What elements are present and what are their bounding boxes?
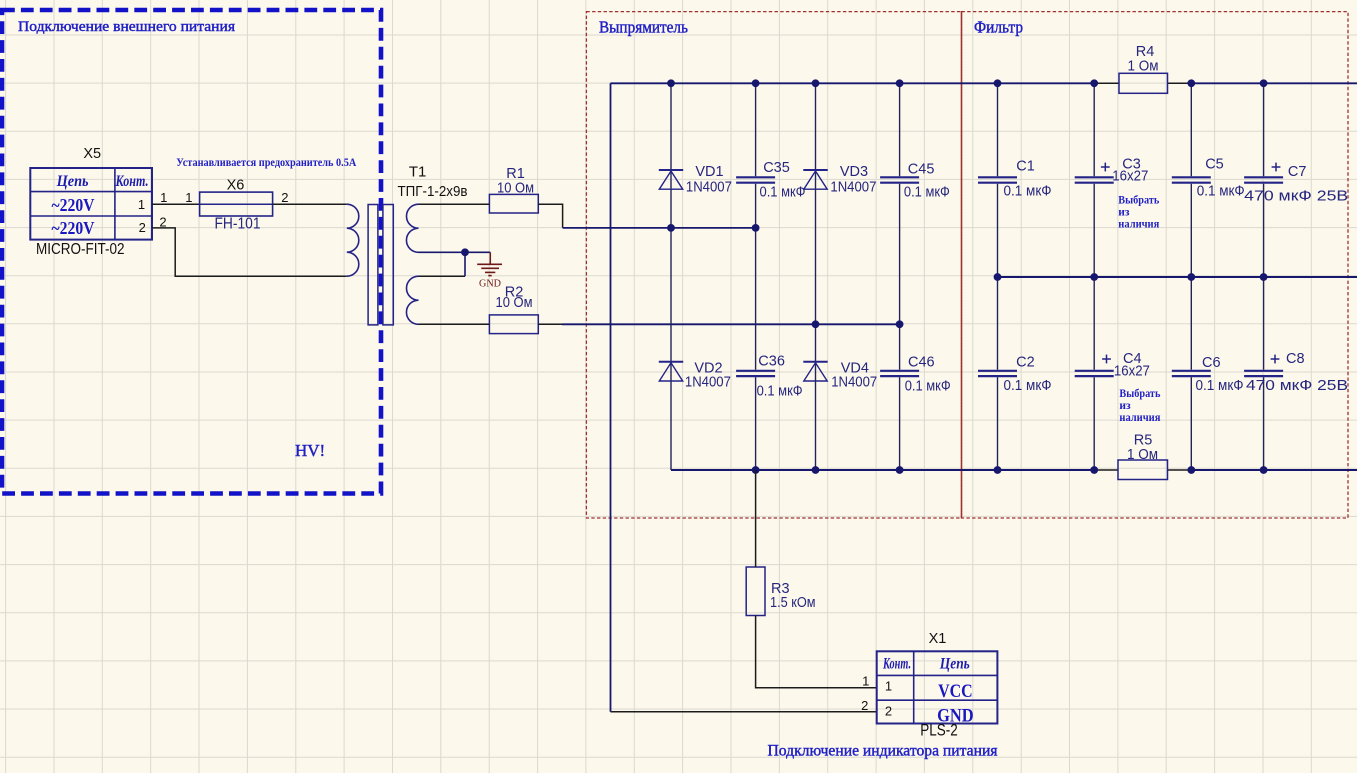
junction xyxy=(667,79,675,87)
wire top bus xyxy=(611,82,1357,84)
wire C7/C8 vertical xyxy=(1263,83,1265,470)
capacitor C8 xyxy=(1244,351,1348,394)
svg-text:из: из xyxy=(1119,400,1131,412)
svg-text:из: из xyxy=(1118,207,1130,219)
svg-text:X1: X1 xyxy=(929,631,947,647)
rectifier region box (Выпрямитель) xyxy=(586,12,961,518)
wire bottom bus to R3 xyxy=(755,470,757,567)
wire VD1/VD2 vertical xyxy=(670,83,672,470)
svg-text:1: 1 xyxy=(160,190,167,205)
capacitor C4 xyxy=(1075,351,1150,380)
svg-text:2: 2 xyxy=(861,698,868,713)
wire T1 to R1 xyxy=(419,203,490,205)
svg-text:16x27: 16x27 xyxy=(1114,364,1150,380)
junction xyxy=(1090,273,1098,281)
svg-text:C1: C1 xyxy=(1016,159,1035,175)
note for C4 xyxy=(1119,388,1160,424)
svg-text:0.1 мкФ: 0.1 мкФ xyxy=(904,185,950,201)
ground symbol GND xyxy=(477,252,502,275)
svg-text:1N4007: 1N4007 xyxy=(831,375,877,391)
junction xyxy=(812,466,820,474)
svg-text:Конт.: Конт. xyxy=(882,656,911,673)
junction xyxy=(1187,273,1195,281)
wire GND net vertical xyxy=(610,83,612,712)
svg-text:2: 2 xyxy=(885,704,892,719)
junction xyxy=(1260,466,1268,474)
diode VD1 xyxy=(659,164,732,196)
svg-text:470 мкФ 25В: 470 мкФ 25В xyxy=(1246,378,1348,394)
T1 secondary winding lower xyxy=(406,276,418,324)
svg-text:0.1 мкФ: 0.1 мкФ xyxy=(1196,378,1244,394)
diode VD4 xyxy=(803,361,877,391)
junction xyxy=(994,273,1002,281)
T1 secondary winding upper xyxy=(406,204,418,252)
svg-text:Цепь: Цепь xyxy=(56,173,89,190)
svg-text:наличия: наличия xyxy=(1119,412,1160,424)
svg-text:Выбрать: Выбрать xyxy=(1118,195,1159,207)
junction xyxy=(1090,79,1098,87)
svg-text:1: 1 xyxy=(185,190,192,205)
svg-text:470 мкФ 25В: 470 мкФ 25В xyxy=(1244,189,1348,205)
HV region box (Подключение внешнего питания) xyxy=(2,10,381,494)
svg-text:1: 1 xyxy=(138,197,145,212)
svg-text:Подключение внешнего питания: Подключение внешнего питания xyxy=(18,19,235,35)
wire C3/C4 vertical xyxy=(1093,83,1095,470)
capacitor C5 xyxy=(1172,157,1245,200)
T1 primary winding xyxy=(347,204,359,276)
svg-text:C5: C5 xyxy=(1205,157,1224,173)
junction xyxy=(896,320,904,328)
capacitor C6 xyxy=(1172,355,1244,394)
junction xyxy=(896,466,904,474)
svg-text:наличия: наличия xyxy=(1118,219,1159,231)
wire C5/C6 vertical xyxy=(1190,83,1192,470)
junction xyxy=(1260,79,1268,87)
capacitor C1 xyxy=(978,159,1052,200)
junction center tap xyxy=(461,248,469,256)
resistor R2 xyxy=(489,285,538,334)
wire GND net to X1 pin2 xyxy=(611,711,877,713)
junction xyxy=(752,79,760,87)
resistor R1 xyxy=(489,166,538,213)
svg-text:FH-101: FH-101 xyxy=(215,216,261,233)
svg-text:HV!: HV! xyxy=(295,441,325,460)
svg-text:0.1 мкФ: 0.1 мкФ xyxy=(757,384,803,400)
capacitor C2 xyxy=(978,355,1052,395)
svg-text:PLS-2: PLS-2 xyxy=(920,722,958,740)
svg-text:VD3: VD3 xyxy=(840,164,868,180)
junction xyxy=(812,320,820,328)
svg-text:0.1 мкФ: 0.1 мкФ xyxy=(905,379,951,395)
svg-text:VCC: VCC xyxy=(938,682,973,702)
capacitor C36 xyxy=(736,354,803,400)
svg-text:0.1 мкФ: 0.1 мкФ xyxy=(1197,184,1245,200)
junction xyxy=(1260,273,1268,281)
svg-text:C36: C36 xyxy=(758,354,785,370)
svg-text:C8: C8 xyxy=(1286,351,1305,367)
diode VD3 xyxy=(803,164,876,196)
connector X5 xyxy=(30,146,152,258)
fuse holder X6 xyxy=(200,178,289,233)
svg-text:Цепь: Цепь xyxy=(939,656,970,673)
svg-text:Фильтр: Фильтр xyxy=(974,18,1023,37)
svg-text:1 Ом: 1 Ом xyxy=(1128,59,1159,75)
wire X5 pin1 to fuse X6 xyxy=(152,190,200,205)
diode VD2 xyxy=(659,361,731,391)
junction xyxy=(994,466,1002,474)
wire secondary center tap xyxy=(419,252,491,276)
svg-text:GND: GND xyxy=(479,278,501,290)
wire C1/C2 vertical xyxy=(997,83,999,470)
junction xyxy=(667,224,675,232)
svg-text:0.1 мкФ: 0.1 мкФ xyxy=(1004,184,1052,200)
svg-text:1N4007: 1N4007 xyxy=(830,180,876,196)
junction xyxy=(752,466,760,474)
capacitor C46 xyxy=(880,355,951,395)
T1 core xyxy=(368,205,378,325)
wire R4 stubs xyxy=(1094,82,1191,84)
svg-text:T1: T1 xyxy=(409,164,427,181)
svg-text:~220V: ~220V xyxy=(52,218,95,238)
svg-text:16x27: 16x27 xyxy=(1112,169,1148,185)
svg-text:VD1: VD1 xyxy=(695,164,723,180)
wire X5 pin2 to T1 primary bottom xyxy=(152,228,347,276)
svg-text:~220V: ~220V xyxy=(52,195,95,215)
svg-text:Устанавливается предохранитель: Устанавливается предохранитель 0.5А xyxy=(176,155,356,169)
junction xyxy=(752,224,760,232)
connector X1 xyxy=(861,631,997,740)
resistor R4 xyxy=(1119,44,1168,93)
svg-text:1.5 кОм: 1.5 кОм xyxy=(770,595,816,611)
resistor R5 xyxy=(1118,433,1168,480)
wire R2 to rectifier xyxy=(538,323,562,325)
svg-text:Подключение индикатора питания: Подключение индикатора питания xyxy=(768,743,999,760)
junction xyxy=(994,79,1002,87)
svg-text:1: 1 xyxy=(885,679,892,694)
wire T1 to R2 xyxy=(419,323,490,325)
svg-text:2: 2 xyxy=(139,220,146,235)
svg-text:Конт.: Конт. xyxy=(115,173,149,190)
junction xyxy=(896,79,904,87)
capacitor C3 xyxy=(1075,157,1149,185)
svg-text:C7: C7 xyxy=(1288,164,1307,180)
wire R1 to rectifier xyxy=(538,204,562,228)
svg-text:10 Ом: 10 Ом xyxy=(496,295,533,311)
svg-text:C2: C2 xyxy=(1016,355,1035,371)
region divider line xyxy=(961,12,963,518)
svg-text:X6: X6 xyxy=(227,178,245,194)
svg-text:0.1 мкФ: 0.1 мкФ xyxy=(760,185,806,201)
svg-text:1: 1 xyxy=(862,674,869,689)
junction xyxy=(1090,466,1098,474)
svg-text:2: 2 xyxy=(281,190,288,205)
wire R5 stubs xyxy=(1094,469,1191,471)
wire C35/C36 vertical xyxy=(755,83,757,470)
note for C3 xyxy=(1118,195,1159,231)
wire R3 to X1 pin1 xyxy=(756,616,877,688)
svg-text:C6: C6 xyxy=(1202,355,1221,371)
svg-text:Выбрать: Выбрать xyxy=(1119,388,1160,400)
wire bottom bus xyxy=(671,469,1357,471)
svg-text:MICRO-FIT-02: MICRO-FIT-02 xyxy=(36,241,125,258)
svg-text:1N4007: 1N4007 xyxy=(685,375,731,391)
wire mid bus xyxy=(998,276,1357,278)
wire C45/C46 vertical xyxy=(899,83,901,470)
svg-text:C35: C35 xyxy=(763,160,790,176)
wire VD3/VD4 vertical xyxy=(815,83,817,470)
svg-text:0.1 мкФ: 0.1 мкФ xyxy=(1004,378,1052,394)
svg-text:X5: X5 xyxy=(83,146,101,162)
junction xyxy=(812,79,820,87)
svg-text:1N4007: 1N4007 xyxy=(686,180,732,196)
svg-text:C46: C46 xyxy=(908,355,935,371)
wire X6 pin2 to T1 primary top xyxy=(273,203,347,205)
capacitor C35 xyxy=(736,160,805,201)
junction xyxy=(1187,466,1195,474)
capacitor C7 xyxy=(1244,163,1348,205)
junction xyxy=(1187,79,1195,87)
capacitor C45 xyxy=(880,162,950,201)
svg-text:ТПГ-1-2х9в: ТПГ-1-2х9в xyxy=(398,183,468,200)
filter region box (Фильтр) xyxy=(962,12,1349,518)
transformer T1 xyxy=(347,164,468,325)
svg-text:C45: C45 xyxy=(908,162,935,178)
resistor R3 xyxy=(746,567,815,616)
svg-text:Выпрямитель: Выпрямитель xyxy=(599,18,688,37)
